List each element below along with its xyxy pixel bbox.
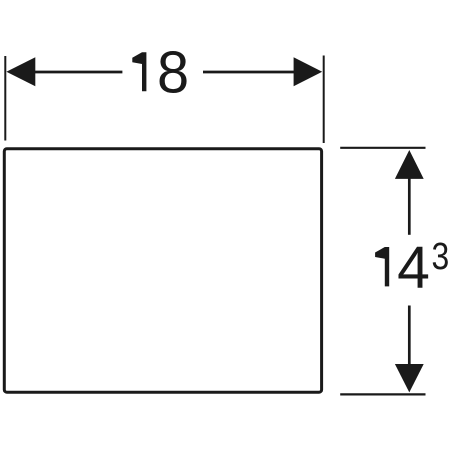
svg-text:4: 4	[397, 234, 430, 301]
svg-text:8: 8	[157, 40, 189, 106]
svg-text:3: 3	[432, 235, 450, 277]
